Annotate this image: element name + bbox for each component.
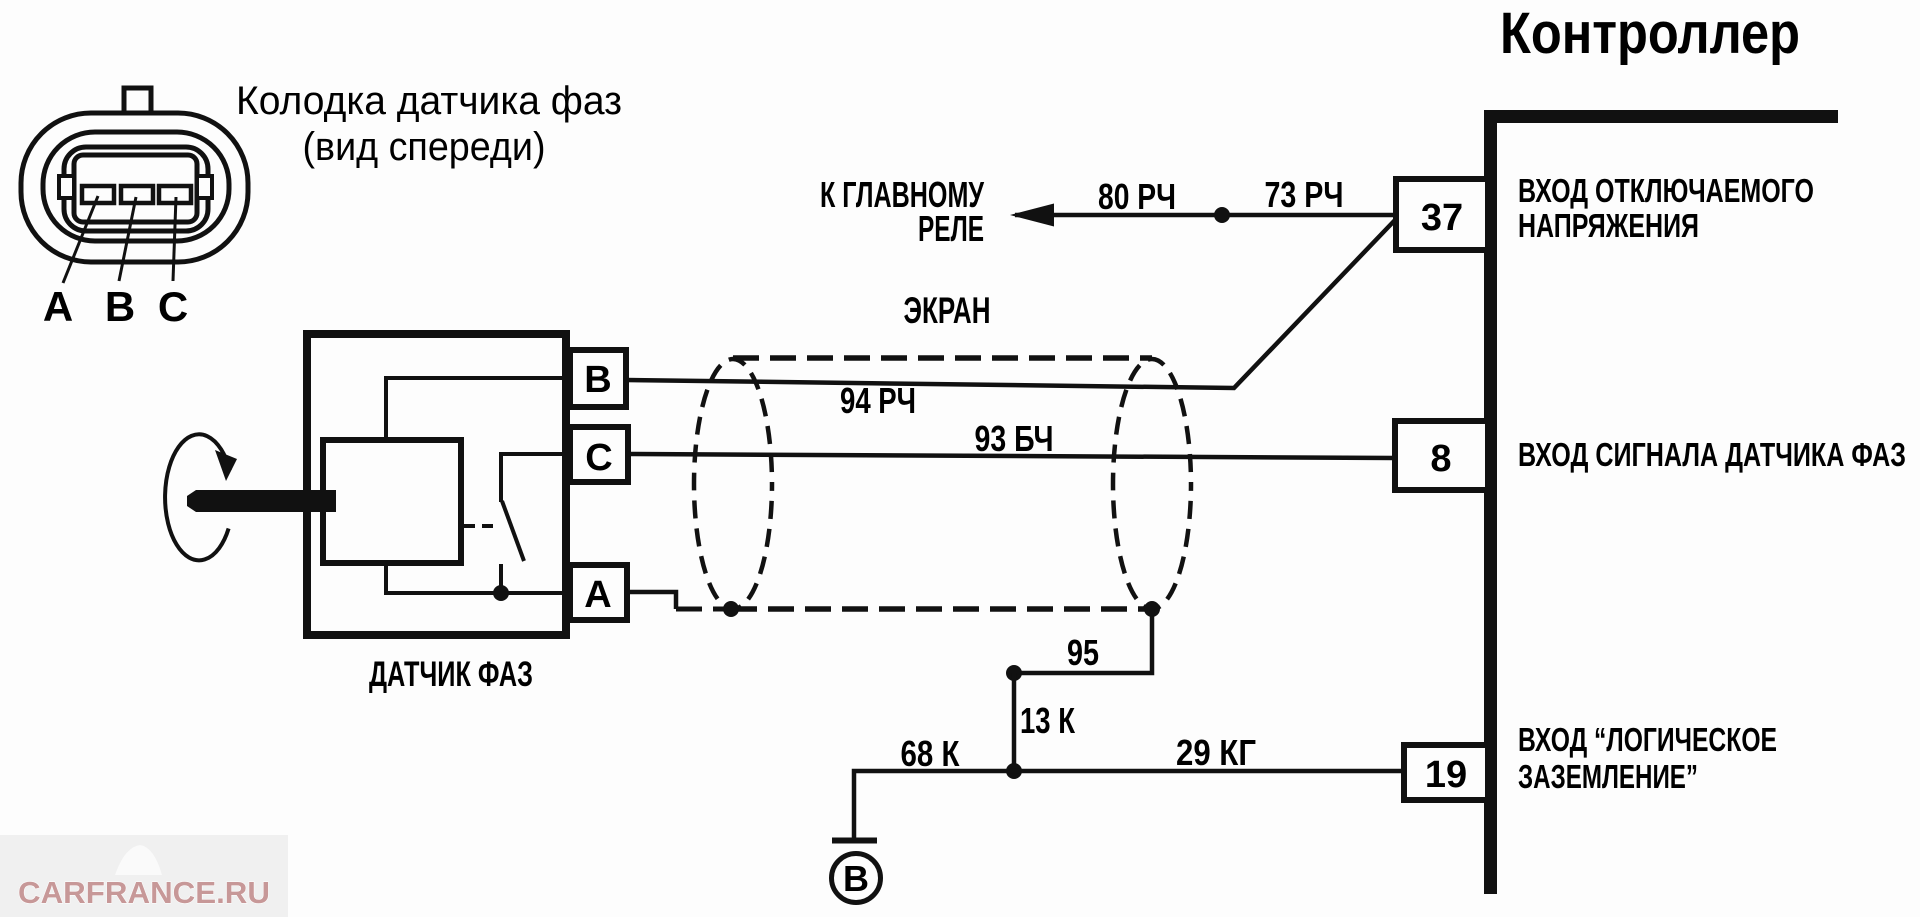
pin 19 box bbox=[1404, 745, 1488, 800]
wire sensor to terminal B bbox=[386, 378, 570, 440]
svg-text:29 КГ: 29 КГ bbox=[1176, 732, 1256, 773]
switch actuation dashed link bbox=[464, 524, 500, 528]
wire 13 К vertical bbox=[1012, 673, 1017, 771]
svg-text:68 К: 68 К bbox=[901, 733, 961, 774]
svg-text:95: 95 bbox=[1067, 632, 1099, 673]
controller vertical bar bbox=[1484, 110, 1497, 894]
pin C cavity bbox=[159, 186, 191, 203]
rotation arrowhead bbox=[215, 450, 237, 481]
ground bar bbox=[832, 838, 877, 844]
svg-text:Колодка датчика фаз: Колодка датчика фаз bbox=[236, 79, 622, 123]
pin B cavity bbox=[121, 186, 153, 203]
svg-text:B: B bbox=[105, 283, 135, 330]
switch lower contact bbox=[499, 564, 503, 593]
terminal B box bbox=[570, 350, 626, 407]
terminal C box bbox=[570, 427, 628, 482]
junction ground node bbox=[1006, 763, 1022, 779]
phase sensor B1 (ДАТЧИК ФАЗ) bbox=[307, 334, 566, 635]
ground point B circle bbox=[832, 854, 881, 903]
wire 93 БЧ (C to pin 8) bbox=[628, 454, 1395, 458]
sensor body box bbox=[307, 334, 566, 635]
connector ring 3 bbox=[64, 147, 208, 231]
svg-text:ВХОД ОТКЛЮЧАЕМОГО: ВХОД ОТКЛЮЧАЕМОГО bbox=[1518, 172, 1814, 209]
svg-text:B: B bbox=[584, 359, 611, 401]
svg-text:A: A bbox=[584, 574, 611, 616]
leader line pin C bbox=[173, 197, 176, 281]
svg-text:ВХОД СИГНАЛА ДАТЧИКА ФАЗ: ВХОД СИГНАЛА ДАТЧИКА ФАЗ bbox=[1518, 436, 1906, 473]
connector X1 (Колодка датчика фаз) bbox=[21, 88, 248, 283]
junction 80/73 bbox=[1214, 207, 1230, 223]
rotation arrow bbox=[165, 434, 230, 560]
svg-text:В: В bbox=[843, 858, 869, 899]
wire 68 К (to ground) bbox=[854, 771, 1014, 839]
junction screen right bbox=[1144, 601, 1160, 617]
cable screen (ЭКРАН) bbox=[694, 358, 1191, 609]
controller top bar bbox=[1486, 110, 1838, 123]
wire sensor to terminal A bbox=[386, 563, 570, 593]
sensor element box bbox=[323, 440, 461, 563]
wire 29 КГ (to pin 19) bbox=[1014, 769, 1404, 774]
svg-text:ЭКРАН: ЭКРАН bbox=[904, 290, 991, 331]
svg-text:(вид спереди): (вид спереди) bbox=[303, 125, 546, 169]
wire to main relay (К ГЛАВНОМУ РЕЛЕ) bbox=[1015, 213, 1396, 218]
wire A to screen bbox=[627, 592, 676, 609]
svg-text:A: A bbox=[43, 283, 73, 330]
wire 94 РЧ (B to pin 37) bbox=[626, 219, 1396, 388]
pin A cavity bbox=[82, 186, 114, 203]
screen left ellipse bbox=[694, 359, 772, 609]
switch blade bbox=[502, 501, 524, 561]
screen right ellipse bbox=[1113, 359, 1191, 609]
svg-text:73 РЧ: 73 РЧ bbox=[1265, 174, 1344, 215]
leader line pin B bbox=[119, 197, 136, 281]
wire screen drain 95 bbox=[1014, 609, 1152, 673]
junction screen left bbox=[723, 601, 739, 617]
svg-text:8: 8 bbox=[1430, 438, 1451, 480]
junction 95 bbox=[1006, 665, 1022, 681]
svg-text:CARFRANCE.RU: CARFRANCE.RU bbox=[18, 875, 270, 910]
svg-text:37: 37 bbox=[1421, 197, 1463, 239]
connector outer shell bbox=[21, 113, 248, 262]
leader line pin A bbox=[63, 196, 98, 283]
svg-text:93 БЧ: 93 БЧ bbox=[975, 418, 1054, 459]
svg-text:94 РЧ: 94 РЧ bbox=[840, 380, 916, 421]
svg-text:13 К: 13 К bbox=[1020, 700, 1076, 741]
screen top dashed line bbox=[733, 355, 1152, 361]
connector right notch bbox=[197, 176, 212, 198]
connector left notch bbox=[59, 176, 74, 198]
pin 8 box bbox=[1395, 421, 1488, 490]
svg-text:НАПРЯЖЕНИЯ: НАПРЯЖЕНИЯ bbox=[1518, 207, 1699, 244]
svg-text:ВХОД “ЛОГИЧЕСКОЕ: ВХОД “ЛОГИЧЕСКОЕ bbox=[1518, 721, 1777, 758]
terminal A box bbox=[570, 565, 627, 620]
watermark emblem bbox=[115, 845, 162, 875]
screen bottom dashed line bbox=[731, 606, 1152, 612]
watermark block bbox=[0, 835, 288, 917]
wire terminal C to switch bbox=[501, 454, 570, 502]
svg-text:Контроллер: Контроллер bbox=[1500, 1, 1800, 66]
svg-text:ЗАЗЕМЛЕНИЕ”: ЗАЗЕМЛЕНИЕ” bbox=[1518, 758, 1698, 795]
junction switch to A wire bbox=[493, 585, 509, 601]
svg-text:РЕЛЕ: РЕЛЕ bbox=[918, 208, 984, 249]
svg-text:C: C bbox=[585, 437, 612, 479]
wire A dashed lead-in bbox=[676, 607, 731, 612]
svg-text:19: 19 bbox=[1425, 754, 1467, 796]
pin 37 box bbox=[1396, 179, 1488, 250]
connector tab bbox=[124, 88, 151, 116]
relay arrowhead bbox=[1010, 204, 1054, 227]
sensor shaft bbox=[187, 490, 336, 512]
connector cavity bbox=[74, 155, 197, 222]
svg-text:80 РЧ: 80 РЧ bbox=[1098, 176, 1176, 217]
svg-text:ДАТЧИК ФАЗ: ДАТЧИК ФАЗ bbox=[369, 655, 533, 694]
connector ring 2 bbox=[43, 132, 229, 241]
svg-text:C: C bbox=[158, 283, 188, 330]
